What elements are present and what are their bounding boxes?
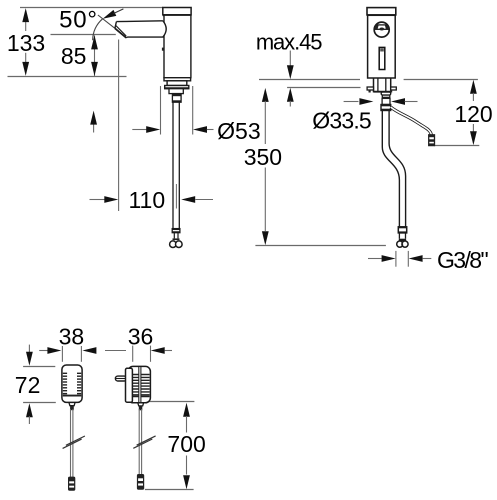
svg-text:120: 120 [454,101,492,127]
svg-text:50°: 50° [59,7,98,34]
svg-text:36: 36 [128,323,154,349]
svg-text:Ø33.5: Ø33.5 [312,108,371,134]
svg-text:700: 700 [167,431,205,457]
svg-text:Ø53: Ø53 [217,118,260,144]
svg-text:85: 85 [61,43,87,69]
svg-text:max.45: max.45 [256,29,322,54]
svg-text:350: 350 [244,144,282,170]
svg-text:110: 110 [128,187,165,213]
svg-text:72: 72 [15,372,41,398]
svg-text:G3/8": G3/8" [437,247,488,273]
svg-text:133: 133 [7,30,45,56]
svg-text:38: 38 [59,323,85,349]
